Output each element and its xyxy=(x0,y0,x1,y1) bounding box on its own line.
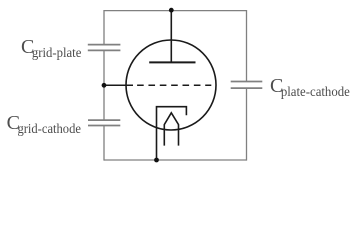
cathode xyxy=(157,107,187,160)
plate lead xyxy=(170,11,172,63)
capacitor C_grid-cathode xyxy=(88,120,120,125)
plate xyxy=(149,61,195,63)
wire right lower xyxy=(246,88,248,161)
grid (dashed) xyxy=(137,84,211,86)
wire top xyxy=(104,10,247,12)
heater xyxy=(164,113,178,146)
wire right upper xyxy=(246,10,248,82)
svg-text:Cgrid-plate: Cgrid-plate xyxy=(21,36,81,61)
node: grid junction xyxy=(102,83,107,88)
wire left middle xyxy=(103,50,105,120)
node: plate junction xyxy=(169,8,174,13)
wire left lower xyxy=(103,126,105,161)
wire bottom xyxy=(104,159,247,161)
tube envelope V1 xyxy=(126,40,216,130)
svg-text:Cplate-cathode: Cplate-cathode xyxy=(270,75,350,100)
node: cathode junction xyxy=(154,158,159,163)
wire left upper xyxy=(103,10,105,45)
svg-text:Cgrid-cathode: Cgrid-cathode xyxy=(7,112,81,137)
capacitor C_grid-plate xyxy=(88,45,121,51)
grid lead xyxy=(104,84,133,86)
capacitor C_plate-cathode xyxy=(231,82,263,89)
